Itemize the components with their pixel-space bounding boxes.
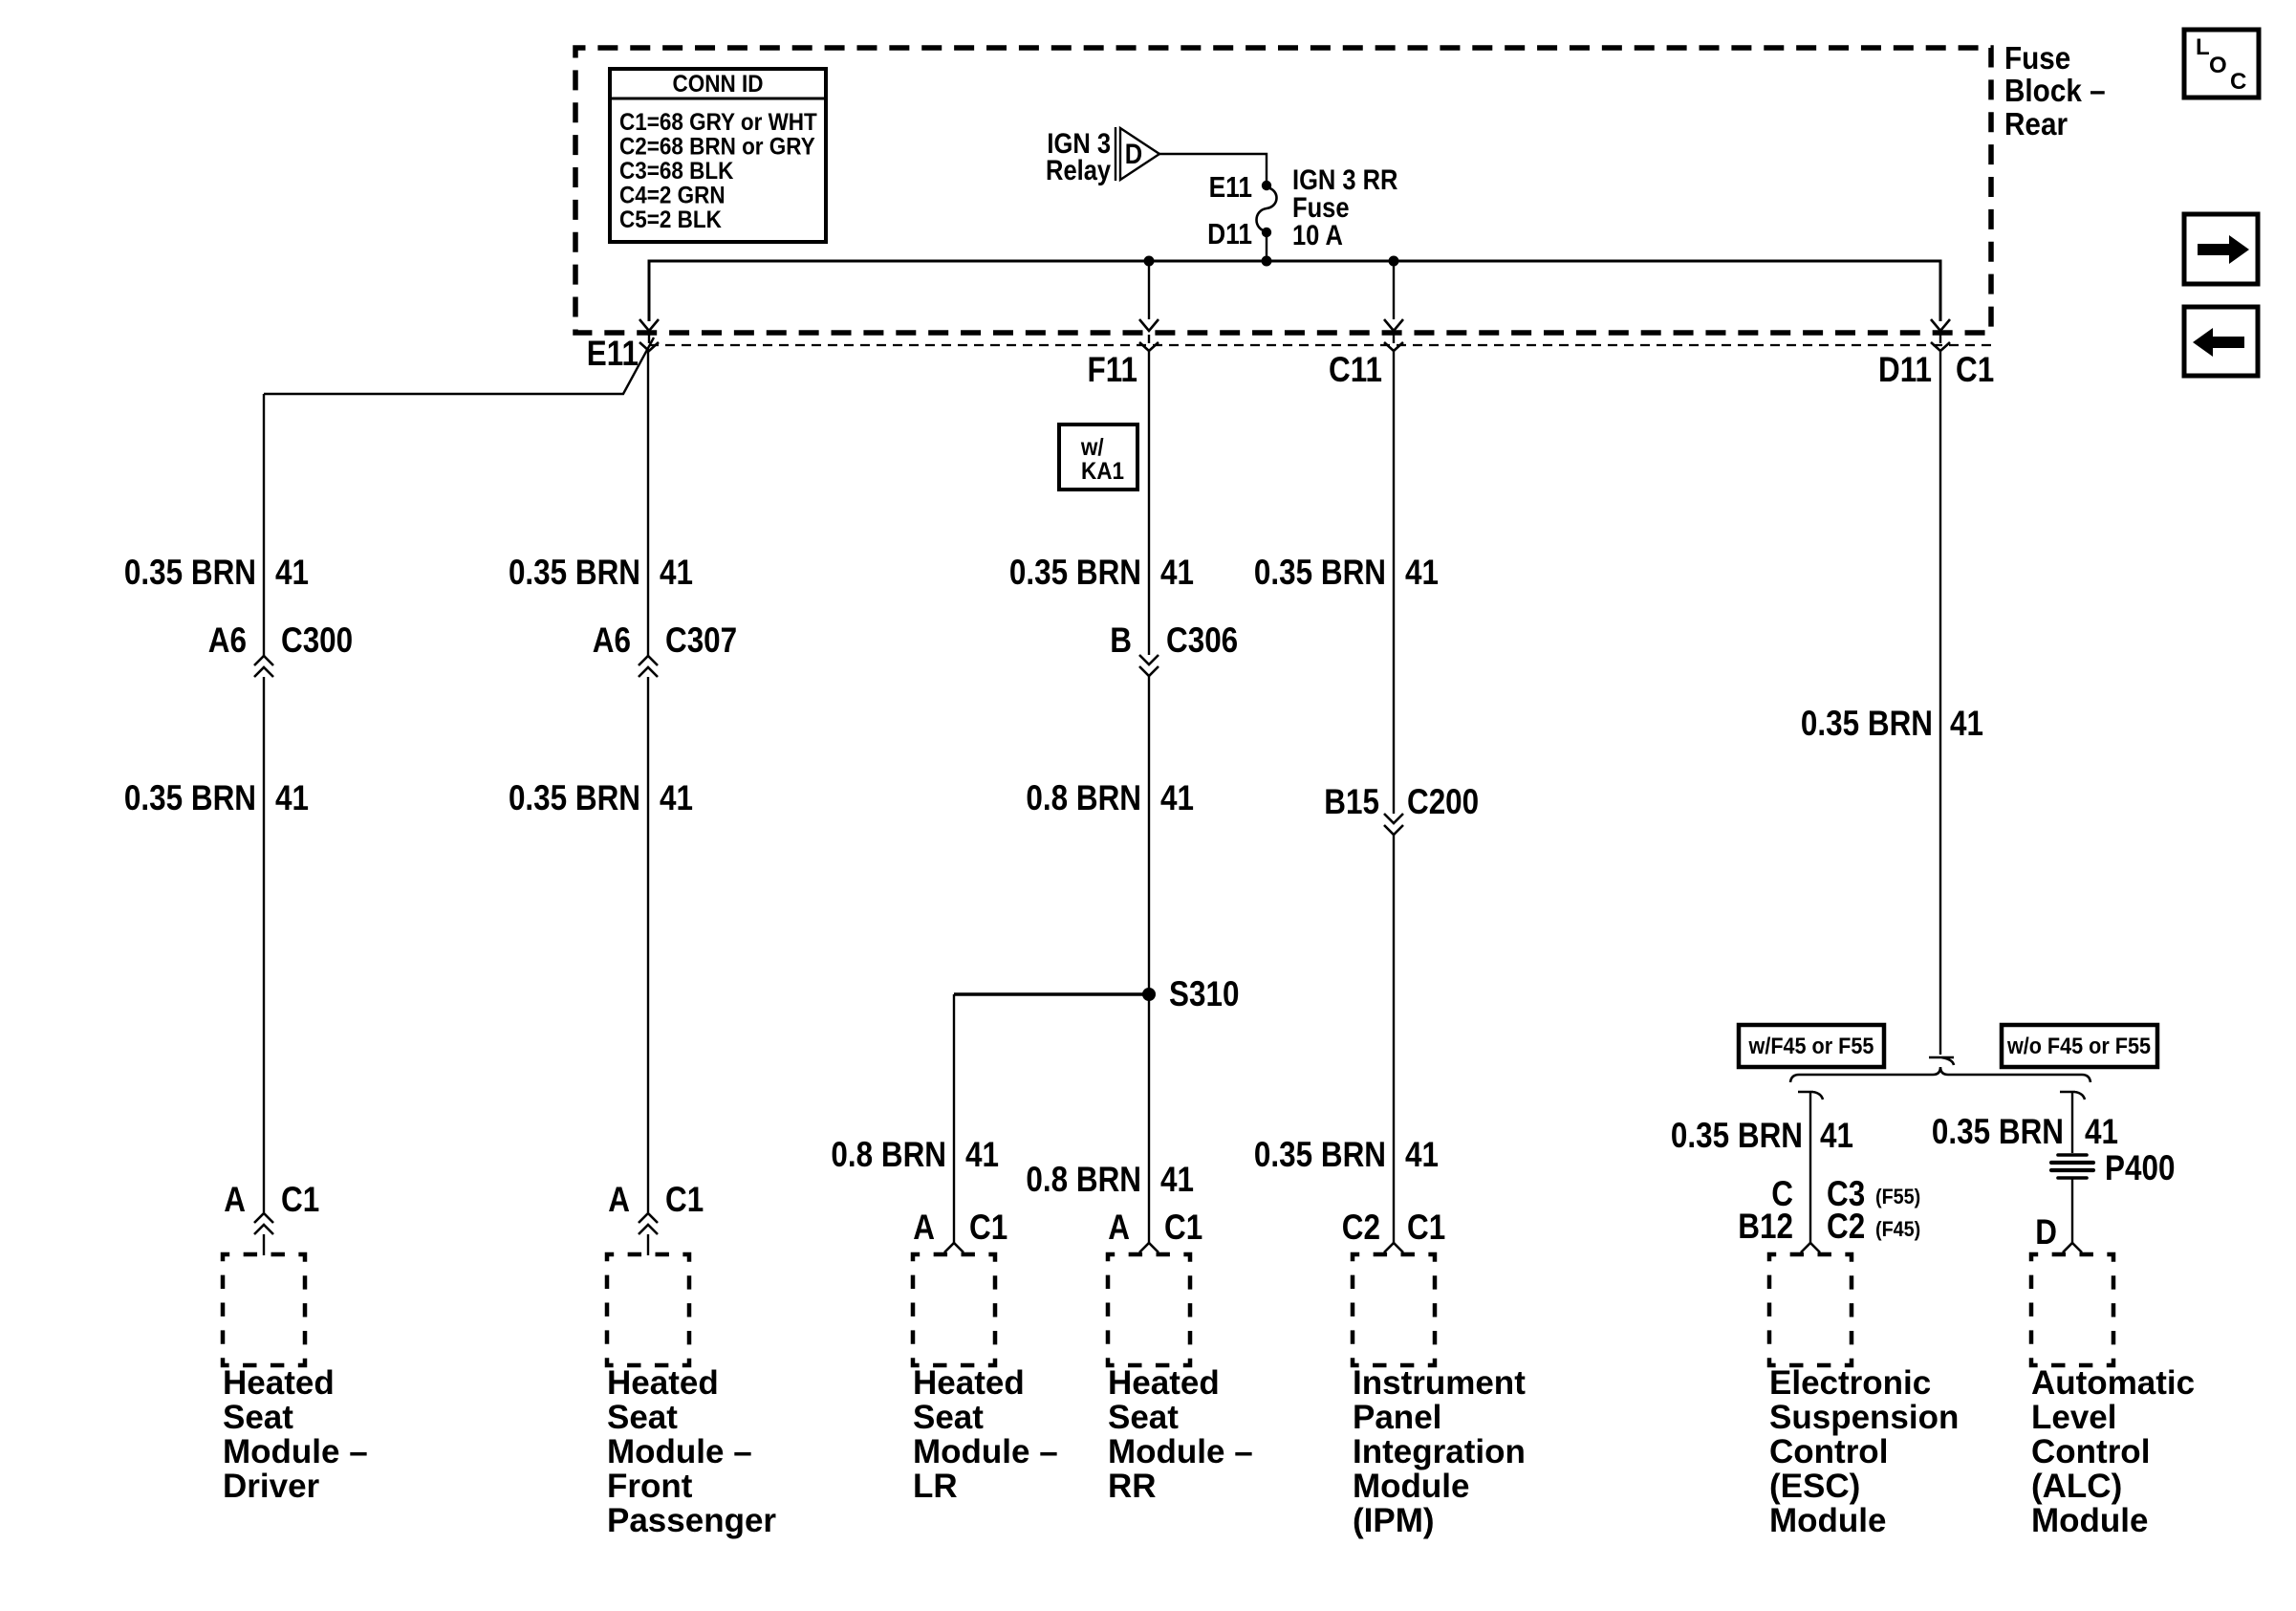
svg-text:A: A (1108, 1208, 1130, 1248)
svg-text:A: A (224, 1181, 246, 1220)
ESC branch hook (1798, 1092, 1823, 1099)
svg-text:(F45): (F45) (1875, 1218, 1920, 1241)
svg-text:41: 41 (660, 554, 693, 593)
svg-text:Level: Level (2031, 1399, 2117, 1436)
svg-text:KA1: KA1 (1081, 458, 1124, 485)
svg-text:E11: E11 (587, 335, 639, 374)
svg-text:Module –: Module – (1108, 1433, 1253, 1470)
svg-text:C1: C1 (1164, 1208, 1202, 1248)
svg-text:41: 41 (275, 779, 309, 818)
svg-text:Panel: Panel (1353, 1399, 1441, 1436)
driver wire into module (263, 1234, 265, 1255)
svg-text:CONN ID: CONN ID (673, 71, 764, 98)
svg-text:S310: S310 (1169, 975, 1239, 1014)
ALC branch wire lower (2071, 1178, 2073, 1243)
options brace (1790, 1067, 2090, 1082)
svg-text:D11: D11 (1878, 351, 1932, 390)
svg-text:C4=2 GRN: C4=2 GRN (619, 182, 726, 208)
svg-text:41: 41 (1160, 554, 1194, 593)
wire end tick above options brace (1929, 1057, 1954, 1065)
svg-text:Fuse: Fuse (2004, 41, 2070, 76)
svg-text:0.8 BRN: 0.8 BRN (1026, 1161, 1141, 1200)
instrument panel integration module label (1353, 1364, 1526, 1539)
heated seat module RR label (1108, 1364, 1253, 1505)
svg-text:Relay: Relay (1046, 154, 1111, 185)
drop wire E11 with arrow (648, 261, 650, 319)
LOC page icon (2184, 30, 2259, 98)
svg-text:Module –: Module – (913, 1433, 1058, 1470)
svg-text:w/F45 or F55: w/F45 or F55 (1748, 1033, 1874, 1058)
svg-text:Heated: Heated (607, 1364, 719, 1402)
svg-text:Driver: Driver (223, 1468, 320, 1505)
automatic level control module dashed box (2031, 1254, 2113, 1365)
svg-text:0.35 BRN: 0.35 BRN (1932, 1113, 2064, 1152)
svg-text:C1: C1 (1956, 351, 1994, 390)
svg-text:Seat: Seat (223, 1399, 293, 1436)
svg-text:w/o F45 or F55: w/o F45 or F55 (2006, 1033, 2151, 1058)
heated seat module driver dashed box (223, 1254, 305, 1365)
svg-text:C1: C1 (969, 1208, 1007, 1248)
heated seat module driver label (223, 1364, 368, 1505)
svg-text:Seat: Seat (607, 1399, 678, 1436)
heated seat module front passenger label (607, 1364, 776, 1539)
svg-text:C11: C11 (1329, 351, 1382, 390)
drop wire D11 with arrow (1931, 319, 1950, 331)
svg-text:D11: D11 (1207, 218, 1252, 250)
svg-text:Control: Control (1769, 1433, 1888, 1470)
E11 crossing chevron and stub (648, 335, 650, 343)
svg-text:C300: C300 (281, 621, 353, 661)
fuse block rear dashed boundary box (575, 48, 1991, 333)
svg-text:0.35 BRN: 0.35 BRN (509, 554, 640, 593)
svg-text:Control: Control (2031, 1433, 2150, 1470)
svg-text:L: L (2196, 34, 2210, 60)
svg-text:41: 41 (1160, 779, 1194, 818)
F11 crossing chevron and stub (1148, 335, 1150, 343)
svg-text:C307: C307 (665, 621, 737, 661)
heated seat module RR dashed box (1108, 1254, 1190, 1365)
svg-text:41: 41 (2085, 1113, 2118, 1152)
svg-text:Instrument: Instrument (1353, 1364, 1526, 1402)
svg-text:Seat: Seat (913, 1399, 984, 1436)
ESC branch wire (1809, 1092, 1811, 1243)
passenger wire below C307 (647, 677, 649, 1212)
svg-text:C1=68 GRY or WHT: C1=68 GRY or WHT (619, 109, 817, 136)
right arrow page icon (2184, 214, 2258, 284)
C11 crossing chevron and stub (1393, 335, 1395, 343)
svg-text:Electronic: Electronic (1769, 1364, 1931, 1402)
svg-text:0.35 BRN: 0.35 BRN (1254, 1136, 1386, 1175)
D11 crossing chevron and stub (1939, 335, 1941, 343)
automatic level control module label (2031, 1364, 2195, 1539)
svg-text:Rear: Rear (2004, 107, 2068, 142)
w/KA1 option box (1059, 425, 1137, 490)
svg-text:Automatic: Automatic (2031, 1364, 2195, 1402)
ALC branch hook (2060, 1092, 2085, 1099)
svg-text:D: D (2035, 1213, 2057, 1252)
svg-text:Heated: Heated (913, 1364, 1025, 1402)
svg-text:E11: E11 (1209, 171, 1252, 204)
passenger wire into module (647, 1234, 649, 1255)
IPM wire C200 to module (1393, 835, 1395, 1243)
svg-text:0.35 BRN: 0.35 BRN (124, 554, 256, 593)
svg-text:A: A (913, 1208, 935, 1248)
svg-text:0.35 BRN: 0.35 BRN (124, 779, 256, 818)
svg-text:C5=2 BLK: C5=2 BLK (619, 207, 722, 233)
svg-text:LR: LR (913, 1468, 958, 1505)
D11 column wire down right side (1939, 351, 1941, 1055)
drop wire F11 with arrow (1148, 261, 1150, 319)
LR branch wire from S310 (954, 992, 1149, 995)
svg-text:(ALC): (ALC) (2031, 1468, 2122, 1505)
RR wire C306 to module through S310 (1148, 676, 1150, 1243)
svg-text:A6: A6 (208, 621, 247, 661)
svg-text:F11: F11 (1088, 351, 1137, 390)
svg-text:41: 41 (1950, 705, 1983, 744)
junction dot C11 (1389, 256, 1399, 267)
svg-text:41: 41 (660, 779, 693, 818)
fuse IGN 3 RR 10A (1207, 163, 1397, 250)
RR column wire F11 to C306 (1148, 351, 1150, 655)
bus wire inside fuse block (649, 261, 1940, 321)
svg-text:C2: C2 (1342, 1208, 1380, 1248)
svg-text:Front: Front (607, 1468, 693, 1505)
svg-text:C1: C1 (281, 1181, 319, 1220)
svg-text:Heated: Heated (223, 1364, 335, 1402)
left arrow page icon (2184, 307, 2258, 376)
svg-text:0.35 BRN: 0.35 BRN (1671, 1117, 1803, 1156)
svg-text:B15: B15 (1324, 783, 1379, 822)
svg-text:0.35 BRN: 0.35 BRN (1801, 705, 1933, 744)
svg-text:0.8 BRN: 0.8 BRN (831, 1136, 946, 1175)
svg-text:(IPM): (IPM) (1353, 1502, 1435, 1539)
CONN ID table (610, 69, 826, 242)
E11 diagonal branch wire to driver column (264, 337, 654, 394)
wire relay output to fuse E11 (1159, 154, 1267, 185)
svg-text:RR: RR (1108, 1468, 1157, 1505)
svg-text:(ESC): (ESC) (1769, 1468, 1860, 1505)
svg-text:B: B (1110, 621, 1132, 661)
svg-text:Module: Module (1353, 1468, 1469, 1505)
heated seat module LR dashed box (913, 1254, 995, 1365)
IPM column wire C11 to C200 (1393, 351, 1395, 814)
IGN 3 Relay symbol U1 (1046, 127, 1159, 185)
svg-text:B12: B12 (1738, 1208, 1793, 1247)
svg-text:C1: C1 (1407, 1208, 1445, 1248)
svg-text:0.8 BRN: 0.8 BRN (1026, 779, 1141, 818)
svg-text:Integration: Integration (1353, 1433, 1526, 1470)
fuse block name label (2004, 41, 2106, 142)
svg-text:(F55): (F55) (1875, 1186, 1920, 1208)
svg-text:10 A: 10 A (1292, 219, 1343, 250)
svg-text:A6: A6 (593, 621, 631, 661)
electronic suspension control module dashed box (1769, 1254, 1852, 1365)
svg-text:C2: C2 (1827, 1208, 1865, 1247)
svg-text:D: D (1125, 138, 1142, 169)
svg-text:C2=68 BRN or GRY: C2=68 BRN or GRY (619, 133, 815, 160)
heated seat module front passenger dashed box (607, 1254, 689, 1365)
svg-text:41: 41 (965, 1136, 999, 1175)
svg-text:C: C (2230, 69, 2246, 95)
driver wire below C300 (263, 677, 265, 1212)
svg-text:Module: Module (1769, 1502, 1886, 1539)
svg-text:41: 41 (1160, 1161, 1194, 1200)
w/o F45 or F55 option box (2002, 1025, 2157, 1067)
pass-through grommet P400 (2051, 1149, 2175, 1188)
svg-text:41: 41 (1405, 554, 1439, 593)
svg-text:0.35 BRN: 0.35 BRN (509, 779, 640, 818)
ALC branch wire upper (2071, 1092, 2073, 1153)
svg-text:41: 41 (1405, 1136, 1439, 1175)
svg-text:C3=68 BLK: C3=68 BLK (619, 158, 733, 185)
drop wire C11 with arrow (1393, 261, 1395, 319)
svg-text:Suspension: Suspension (1769, 1399, 1959, 1436)
svg-text:Passenger: Passenger (607, 1502, 776, 1539)
svg-text:41: 41 (275, 554, 309, 593)
svg-text:C1: C1 (665, 1181, 704, 1220)
svg-text:Heated: Heated (1108, 1364, 1220, 1402)
connector C1 thin dashed line under fuse block (649, 344, 1991, 346)
svg-text:Module: Module (2031, 1502, 2148, 1539)
heated seat module LR label (913, 1364, 1058, 1505)
svg-text:P400: P400 (2105, 1149, 2175, 1188)
instrument panel integration module dashed box (1353, 1254, 1435, 1365)
svg-text:Seat: Seat (1108, 1399, 1179, 1436)
svg-text:0.35 BRN: 0.35 BRN (1009, 554, 1141, 593)
svg-text:Block –: Block – (2004, 74, 2106, 109)
driver column wire (263, 394, 265, 656)
svg-text:C200: C200 (1407, 783, 1479, 822)
front passenger column wire (647, 351, 649, 656)
svg-text:O: O (2209, 53, 2227, 78)
junction dot F11 (1144, 256, 1155, 267)
wire fuse to bus (1266, 232, 1267, 261)
svg-text:A: A (608, 1181, 630, 1220)
svg-text:C306: C306 (1166, 621, 1238, 661)
svg-text:41: 41 (1820, 1117, 1853, 1156)
svg-text:Module –: Module – (607, 1433, 752, 1470)
w/F45 or F55 option box (1739, 1025, 1884, 1067)
svg-text:Module –: Module – (223, 1433, 368, 1470)
splice S310 (1142, 988, 1156, 1001)
junction dot fuse output (1262, 256, 1272, 267)
electronic suspension control module label (1769, 1364, 1959, 1539)
svg-text:0.35 BRN: 0.35 BRN (1254, 554, 1386, 593)
